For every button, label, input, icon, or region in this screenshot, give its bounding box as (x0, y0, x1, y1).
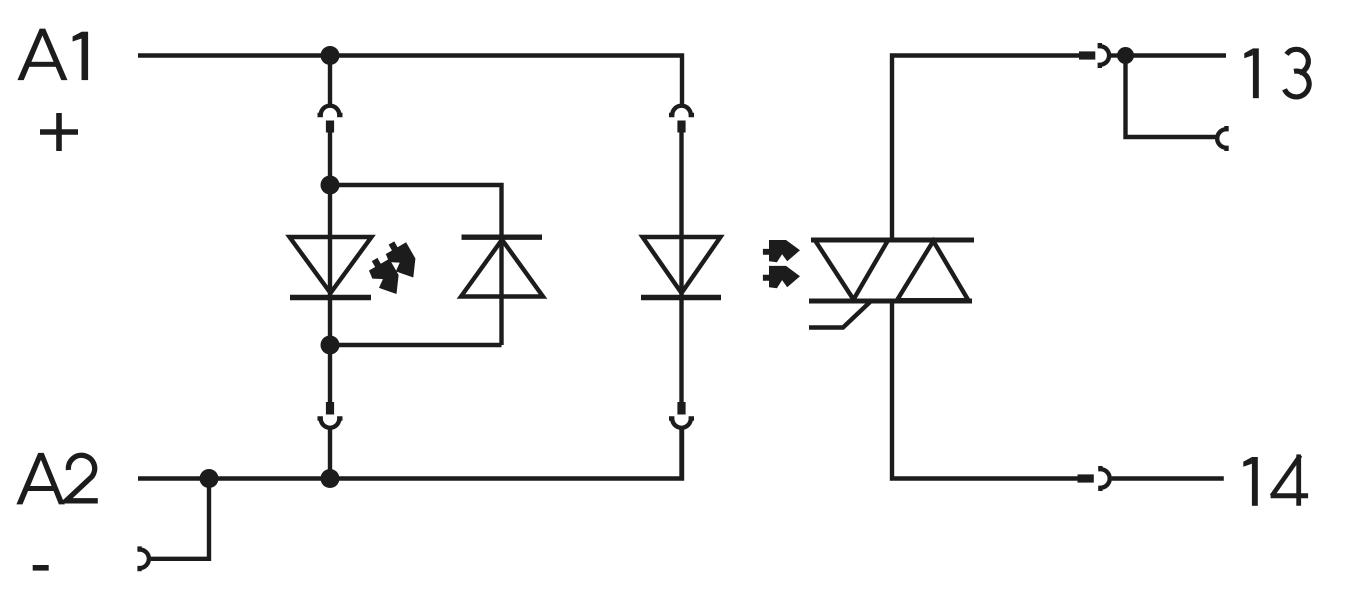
LED D1 triangle (290, 237, 372, 293)
plus polarity mark (40, 113, 78, 151)
wire minus tap (151, 479, 209, 559)
wire D2 vertical through (499, 235, 503, 345)
connector socket branch2 bottom (669, 419, 694, 428)
connector pin branch1 bottom (326, 402, 334, 415)
wire 13 test tap (1126, 56, 1218, 138)
connector socket 14 (1100, 466, 1109, 491)
wire parallel loop top (330, 185, 502, 235)
wire branch2 socket to A2 (679, 428, 683, 479)
node branch1 upper (321, 176, 340, 195)
minus polarity mark (33, 565, 49, 571)
wire parallel loop bottom (330, 343, 502, 347)
connector pin branch2 bottom (677, 402, 685, 415)
wire triac top to 13 (892, 56, 1079, 241)
node A2/minus tap (200, 469, 219, 488)
wire branch2 LED to pin (679, 237, 683, 402)
connector socket branch2 top (669, 106, 694, 115)
wire socket to label 14 (1112, 476, 1224, 480)
triac U1 bottom rail (809, 299, 972, 304)
wire socket to node 13 (1111, 53, 1118, 57)
terminal label 14 (1243, 457, 1258, 506)
wire A1 rail (138, 56, 682, 107)
protection diode D2 cathode bar (462, 234, 543, 239)
wire branch1 node to pin (328, 345, 332, 402)
light emission arrow 2 (381, 236, 423, 284)
LED D1 cathode bar (290, 295, 371, 301)
light coupling arrow 2 (763, 266, 800, 288)
connector pin 13 (1079, 51, 1095, 59)
triac U1 top rail (811, 238, 974, 243)
connector pin 14 (1078, 474, 1094, 482)
protection diode D2 triangle (461, 240, 543, 297)
connector socket branch1 top (318, 106, 343, 115)
wire triac bottom to 14 (892, 301, 1078, 479)
wire branch1 through LED (328, 185, 332, 345)
triac U1 gate (809, 302, 870, 328)
node 13 (1117, 47, 1134, 64)
wire A2 rail (138, 428, 682, 479)
connector socket 13 (1100, 43, 1109, 68)
terminal label 13 (1244, 48, 1259, 98)
wire branch1 drop from A1 (328, 56, 332, 107)
node junction A1/branch1 (321, 46, 340, 65)
terminal label A1 (17, 29, 88, 81)
connector socket 13 tap (1217, 126, 1226, 151)
wire branch2 pin to LED (679, 132, 683, 237)
wire branch1 socket to A2 (328, 428, 332, 479)
connector socket minus tap (140, 546, 149, 571)
light emission arrow 1 (365, 253, 407, 301)
node A2/branch1 (321, 469, 340, 488)
LED D3 cathode bar (641, 295, 721, 301)
connector pin branch1 top (326, 121, 334, 133)
wire branch1 pin to node (328, 132, 332, 185)
connector socket branch1 bottom (318, 419, 343, 428)
triac U1 left triangle (815, 240, 888, 299)
light coupling arrow 1 (763, 240, 800, 262)
triac U1 right triangle (897, 241, 968, 300)
terminal label A2 (16, 453, 64, 505)
wire node to label 13 (1126, 53, 1227, 57)
node branch1 lower (321, 336, 340, 355)
LED D3 triangle (643, 237, 721, 293)
connector pin branch2 top (677, 121, 685, 133)
